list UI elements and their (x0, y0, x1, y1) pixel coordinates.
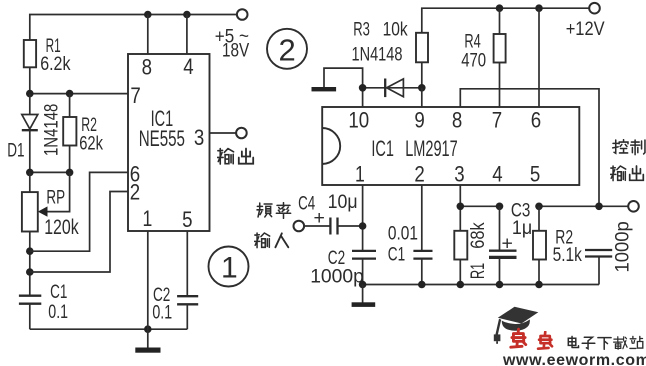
node bus pin4 (496, 203, 504, 211)
pin 4 (183, 15, 193, 80)
node gnd pin4 (496, 281, 504, 289)
svg-text:8: 8 (452, 109, 462, 133)
svg-text:0.1: 0.1 (152, 301, 172, 323)
wire output bus (460, 205, 499, 207)
svg-text:+12V: +12V (566, 18, 605, 40)
capacitor 1000p (right) (585, 250, 612, 285)
wire RP wiper to R2 bottom (46, 172, 70, 211)
terminal output (236, 128, 247, 139)
wire R1 to pin7 rail (29, 67, 31, 93)
terminal +12V (589, 3, 600, 14)
resistor R4 (494, 8, 506, 107)
svg-text:1000p: 1000p (310, 265, 364, 287)
node pin2 riser (26, 268, 34, 276)
logo mortarboard cap (494, 307, 539, 344)
pin 3 output wire (194, 126, 236, 150)
resistor R1 (right) 68k (454, 231, 467, 285)
resistor R3 (416, 33, 428, 88)
svg-text:R1: R1 (467, 263, 488, 279)
terminal +5~18V (237, 9, 248, 20)
wire pin6 path (30, 172, 128, 251)
node gnd pin3 (457, 281, 465, 289)
wire pin8 to output riser (460, 89, 599, 207)
svg-text:10: 10 (348, 109, 369, 133)
node rail-pin8 (144, 11, 152, 19)
pin 8 (142, 15, 152, 80)
svg-text:2: 2 (130, 181, 140, 205)
node pin9 (418, 84, 426, 92)
node bus pin3 (457, 203, 465, 211)
svg-text:3: 3 (194, 126, 204, 150)
svg-text:4: 4 (492, 163, 502, 187)
wire pin7 horizontal (30, 93, 128, 95)
svg-text:7: 7 (130, 85, 140, 109)
node RP bottom / pin6 riser (26, 247, 34, 255)
ground (right) (352, 285, 376, 307)
svg-text:1: 1 (143, 207, 153, 231)
circled number 1 (209, 247, 249, 287)
svg-text:1μ: 1μ (512, 216, 532, 238)
diode D1 (22, 94, 38, 173)
diode 1N4148 (right) (363, 79, 422, 98)
label 控制输出 (control output) (611, 140, 645, 181)
svg-text:5: 5 (530, 163, 540, 187)
svg-text:5.1k: 5.1k (553, 243, 582, 265)
svg-text:7: 7 (492, 109, 502, 133)
svg-text:10k: 10k (383, 18, 408, 40)
svg-text:6.2k: 6.2k (40, 53, 70, 75)
wire pin1 down (147, 231, 149, 329)
wire pin2 path (30, 192, 128, 273)
svg-text:68k: 68k (467, 221, 489, 248)
node rail R4 (496, 4, 504, 12)
terminal control output (628, 201, 639, 212)
node gnd pin5 (535, 281, 543, 289)
svg-text:470: 470 (461, 49, 486, 71)
label 频率输入 (frequency input) (255, 203, 291, 248)
node R1-D1 (26, 90, 34, 98)
op-amp/timer IC1 NE555 box (128, 54, 210, 231)
wire ground bus right (363, 284, 599, 286)
svg-text:18V: 18V (222, 39, 249, 61)
svg-text:8: 8 (142, 56, 152, 80)
svg-text:9: 9 (414, 109, 424, 133)
wire: +12V top rail (422, 8, 589, 33)
resistor R1 (24, 40, 36, 67)
capacitor C1 (right) 0.01 (413, 185, 432, 285)
capacitor C3 (489, 206, 517, 284)
svg-text:10μ: 10μ (328, 190, 358, 212)
capacitor C1 (19, 296, 41, 330)
node ground (144, 325, 152, 333)
logo 电子下载站 (568, 336, 643, 349)
svg-text:LM2917: LM2917 (405, 136, 457, 161)
svg-text:IC1: IC1 (371, 136, 394, 161)
svg-text:4: 4 (183, 56, 193, 80)
node gnd pin1 (359, 281, 367, 289)
node rail pin6 (535, 4, 543, 12)
svg-text:C1: C1 (388, 243, 405, 265)
capacitor C4 (304, 207, 363, 235)
svg-text:1000p: 1000p (612, 221, 634, 272)
svg-text:C1: C1 (50, 281, 67, 303)
ground (135, 329, 160, 353)
capacitor C2 (right) (352, 251, 376, 285)
potentiometer RP (22, 172, 38, 295)
wiper arrowhead (38, 206, 48, 216)
node bus pin5 (535, 203, 543, 211)
svg-text:1: 1 (355, 163, 365, 187)
svg-text:+: + (314, 207, 325, 229)
svg-text:6: 6 (531, 109, 541, 133)
svg-text:2: 2 (279, 33, 296, 68)
svg-text:www.eeworm.com: www.eeworm.com (502, 352, 646, 366)
ground bar top-left (312, 87, 337, 91)
label 输出 (output) (218, 149, 254, 164)
node pin10 (359, 84, 367, 92)
svg-text:1: 1 (221, 252, 238, 285)
svg-text:62k: 62k (79, 131, 103, 154)
node gnd pin2 (418, 281, 426, 289)
wire ground hook to pin10 (324, 68, 363, 107)
capacitor C2 (177, 231, 198, 329)
wire: +V top rail left (30, 15, 236, 41)
svg-text:120k: 120k (44, 215, 79, 239)
resistor R2 (63, 94, 76, 173)
node bus riser (595, 203, 603, 211)
wire ground bus left (30, 328, 188, 330)
circled number 2 (267, 29, 307, 69)
svg-text:NE555: NE555 (139, 127, 185, 151)
svg-text:0.1: 0.1 (48, 301, 68, 323)
svg-text:R3: R3 (353, 18, 370, 40)
node D1 bottom (26, 169, 34, 177)
node rail-pin4 (183, 11, 191, 19)
terminal frequency input (294, 221, 305, 232)
svg-text:1N4148: 1N4148 (352, 43, 403, 66)
logo 虫虫 (red) (511, 329, 552, 349)
node C4-pin1 (359, 222, 367, 230)
node R2 top (66, 90, 74, 98)
wire pin1 down (362, 185, 364, 251)
svg-text:C4: C4 (298, 192, 315, 214)
svg-text:1N4148: 1N4148 (40, 104, 62, 156)
IC LM2917 box (322, 107, 579, 185)
resistor R2 (right) (533, 206, 546, 284)
svg-text:5: 5 (182, 208, 192, 232)
wire pin9 drop (421, 88, 423, 107)
svg-text:D1: D1 (7, 139, 24, 161)
wire D1-R2 bottom (30, 171, 70, 173)
node R2 bottom (66, 169, 74, 177)
svg-text:0.01: 0.01 (388, 222, 418, 244)
wire pin3 down (459, 185, 461, 231)
wire pin6 drop (538, 8, 540, 107)
svg-text:3: 3 (454, 163, 464, 187)
svg-text:RP: RP (46, 186, 65, 208)
svg-text:2: 2 (414, 163, 424, 187)
